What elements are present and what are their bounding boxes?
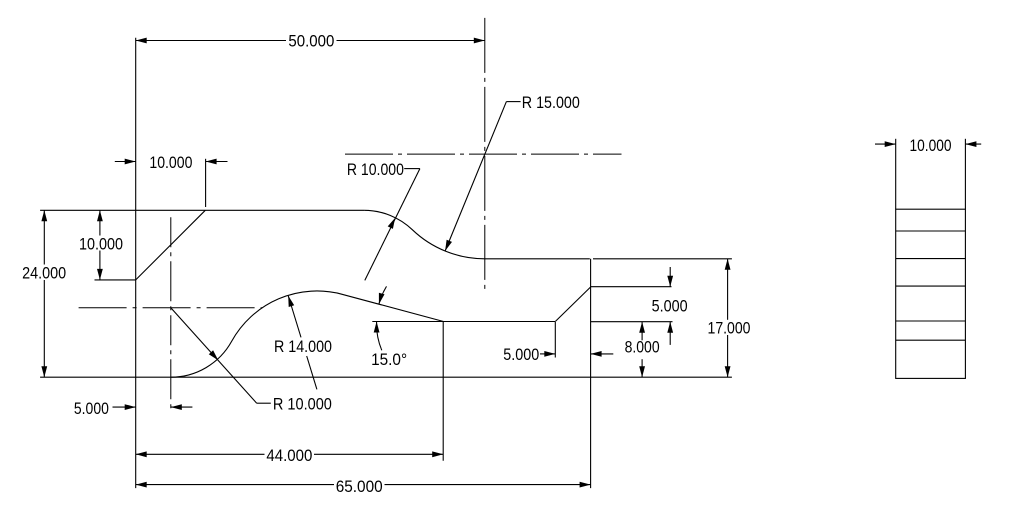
dimension line 24.000 lower segment [43,280,45,377]
arrowhead 5.000 right upper [667,276,673,287]
side view edge line y=8 [896,320,966,322]
extension line for 10.000 horizontal dim [205,159,207,207]
vertical centerline of R 15.000 arc [484,18,486,290]
arrowhead R 10.000 bottom on arc [209,350,219,360]
dim tail 10.000 side left [875,143,896,145]
dimension line 50.000 right segment [337,40,485,42]
svg-text:17.000: 17.000 [708,319,751,338]
arrowhead angular dim on slope [379,293,385,304]
arrowhead 5.000 left outer [171,404,182,410]
dim tail 5.000 right lower [669,322,671,345]
svg-text:44.000: 44.000 [266,446,312,465]
leader line R 14.000 upper segment [288,296,301,338]
arrowhead 5.000 notch right [591,351,602,357]
svg-text:8.000: 8.000 [625,338,660,357]
part top edge + 24.000 extension line [40,209,364,211]
extension line for 5.000 notch dim [554,322,556,358]
leader tick R 10.000 bottom [257,402,271,404]
side view edge line y=17 [896,258,966,260]
angular dim arc upper 15.0deg [379,286,387,304]
arrowhead 24.000 top [41,210,47,221]
arrowhead 10.000 side left [885,141,896,147]
arrowhead 10.000 vert top [97,210,103,221]
arrowhead 17.000 bottom [725,366,731,377]
extension line for 17.000 dim (top) [593,258,732,260]
svg-text:R 15.000: R 15.000 [522,93,580,112]
dim tail 10.000 horiz left [115,161,136,163]
arrowhead R 15.000 on arc [445,240,452,251]
vertical centerline of bottom R 10.000 arc [170,217,172,409]
bottom profile: R 10.000 arc, R 14.000 crest, 15 deg slope [171,291,444,377]
side view edge line (bottom inflection) [896,339,966,341]
extension line for 10.000 vertical dim [95,279,136,281]
svg-text:5.000: 5.000 [503,345,539,364]
svg-text:R 14.000: R 14.000 [274,337,332,356]
arrowhead 8.000 top [639,322,645,333]
svg-text:10.000: 10.000 [79,234,123,253]
dim tail 10.000 side right [965,143,981,145]
arrowhead 10.000 horiz right [206,159,217,165]
svg-text:10.000: 10.000 [149,153,192,172]
arrowhead 10.000 vert bottom [97,269,103,280]
arrowhead 50.000 left [136,38,147,44]
horizontal centerline of R 15.000 arc [345,153,622,155]
part right edge + vertical extension line [590,259,592,488]
arrowhead 65.000 left [136,482,147,488]
horizontal centerline of bottom R 10.000 arc [79,307,263,309]
extension line for 5.000 dim (right) [591,286,672,288]
dimension line 17.000 lower segment [727,335,729,377]
svg-text:65.000: 65.000 [336,477,383,496]
arrowhead 5.000 notch left [544,351,555,357]
dim tail 5.000 left right-side [171,406,193,408]
arrowhead R 10.000 top on arc [388,218,396,229]
arrowhead 8.000 bottom [639,366,645,377]
dimension line 65.000 right segment [385,484,591,486]
arrowhead 10.000 side right [965,141,976,147]
5x5 chamfer edge bottom-right [555,287,590,322]
dim tail 5.000 notch left [540,353,555,355]
side view rectangle outline [896,209,966,378]
extension line for 44.000 dim [442,322,444,461]
leader line R 14.000 lower segment [307,356,317,389]
part top-left 10x10 chamfer edge [136,210,206,280]
extension line for 8.000 dim [591,321,673,323]
side view edge line y=21 (top S-curve inflection) [896,230,966,232]
leader tick R 10.000 top [404,168,420,170]
dimension line 44.000 left segment [136,453,265,455]
dim tail 5.000 right upper [669,267,671,287]
svg-text:10.000: 10.000 [910,136,952,155]
arrowhead 65.000 right [580,482,591,488]
arrowhead 50.000 right [474,38,485,44]
extension line side view left [895,139,897,209]
dimension line 8.000 upper segment [641,322,643,341]
svg-text:5.000: 5.000 [652,296,688,315]
dimension line 10.000 vert upper segment [99,210,101,235]
svg-text:24.000: 24.000 [22,263,66,282]
step surface y=8 + extension for 15 deg dim [372,321,555,323]
leader line R 10.000 bottom through arc center [171,308,257,403]
arrowhead R 14.000 on crest [288,296,294,307]
dimension line 44.000 right segment [314,453,443,455]
svg-text:5.000: 5.000 [74,399,109,418]
dim tail 5.000 notch right [591,353,614,355]
dimension line 8.000 lower segment [641,359,643,377]
dimension line 24.000 upper segment [43,210,45,264]
leader line R 15.000 through arc center [445,102,506,251]
svg-text:15.0°: 15.0° [371,350,407,369]
dimension line 50.000 left segment [136,40,286,42]
arrowhead 24.000 bottom [41,366,47,377]
leader tick R 15.000 [506,101,520,103]
arrowhead angular dim on horizontal [374,322,380,333]
svg-text:R 10.000: R 10.000 [273,395,332,414]
dimension line 17.000 upper segment [727,259,729,320]
arrowhead 44.000 left [136,451,147,457]
top S-curve: R 10.000 arc into R 15.000 arc [364,210,485,259]
dimension line 65.000 left segment [136,484,334,486]
arrowhead 10.000 horiz left [125,159,136,165]
svg-text:R 10.000: R 10.000 [347,160,404,179]
side view edge line y=13 [896,285,966,287]
dimension line 10.000 vert lower segment [99,251,101,280]
part left edge + vertical extension line [135,38,137,488]
arrowhead 5.000 right lower [667,322,673,333]
leader line R 10.000 top through arc center [365,169,420,281]
svg-text:50.000: 50.000 [288,31,334,50]
part bottom edge + extension lines [40,376,732,378]
arrowhead 17.000 top [725,259,731,270]
angular dim arc lower 15.0deg [377,322,382,351]
part top-right surface y=17 [485,258,590,260]
arrowhead 5.000 left inner [125,404,136,410]
dim tail 10.000 horiz right [206,161,228,163]
arrowhead 44.000 right [432,451,443,457]
extension line side view right [964,139,966,209]
dim tail 5.000 left [113,406,136,408]
